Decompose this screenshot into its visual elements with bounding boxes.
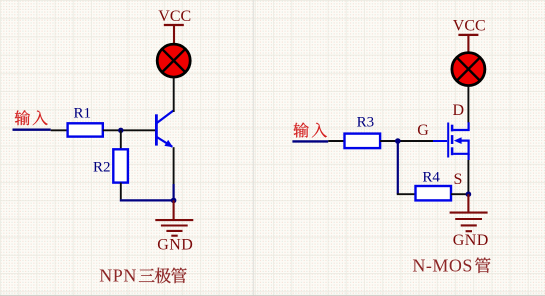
wire: emitter down bbox=[173, 147, 175, 200]
caption N-MOS管 bbox=[412, 255, 490, 275]
resistor R4 label bbox=[422, 170, 440, 186]
wire: lamp to collector bbox=[173, 78, 175, 111]
junction node (source/R4/ground) bbox=[466, 191, 472, 197]
svg-text:GND: GND bbox=[453, 232, 489, 249]
svg-text:R3: R3 bbox=[357, 115, 375, 131]
svg-text:VCC: VCC bbox=[453, 18, 486, 35]
wire: R3 to gate bbox=[380, 140, 447, 142]
wire: input to R1 bbox=[51, 129, 68, 131]
svg-text:NPN: NPN bbox=[99, 266, 137, 286]
resistor R4 bbox=[416, 186, 452, 200]
svg-text:R1: R1 bbox=[74, 106, 92, 122]
ground symbol (left) bbox=[155, 200, 193, 235]
transistor Q2 (N-MOSFET) bbox=[448, 122, 468, 160]
resistor R2 label bbox=[93, 159, 111, 175]
pin label G bbox=[417, 122, 429, 139]
junction node (emitter/ground) bbox=[171, 198, 177, 204]
wire: bottom rail to emitter node bbox=[120, 199, 174, 201]
lamp DS2 (right indicator) bbox=[452, 53, 485, 86]
svg-text:S: S bbox=[454, 171, 463, 188]
svg-text:R4: R4 bbox=[422, 170, 440, 186]
pin label S bbox=[454, 171, 463, 188]
wire: lamp to drain bbox=[467, 86, 469, 123]
junction node (gate/R4) bbox=[395, 138, 401, 144]
resistor R3 label bbox=[357, 115, 375, 131]
caption NPN三极管 bbox=[99, 266, 186, 286]
svg-text:VCC: VCC bbox=[158, 8, 191, 25]
wire: R1 to base bbox=[103, 129, 156, 131]
lamp DS1 (left indicator) bbox=[157, 44, 190, 77]
power port VCC (left) bbox=[158, 8, 191, 43]
wire: to R4 left bbox=[397, 193, 416, 195]
svg-text:R2: R2 bbox=[93, 159, 111, 175]
svg-text:D: D bbox=[453, 102, 465, 119]
bottom sheet edge bbox=[0, 294, 545, 296]
wire: R2 down bbox=[120, 183, 122, 200]
net label GND (left) bbox=[157, 236, 193, 253]
port underline (right input) bbox=[292, 140, 328, 142]
junction node (base/R2) bbox=[118, 128, 123, 133]
port underline (left input) bbox=[13, 129, 51, 131]
resistor R3 bbox=[345, 134, 381, 149]
resistor R1 label bbox=[74, 106, 92, 122]
pin label D bbox=[453, 102, 465, 119]
wire: source down bbox=[467, 160, 469, 194]
net label 输入 (left input) bbox=[15, 110, 48, 125]
svg-text:G: G bbox=[417, 122, 429, 139]
svg-text:N-MOS: N-MOS bbox=[412, 255, 473, 275]
resistor R1 bbox=[68, 123, 103, 136]
power port VCC (right) bbox=[453, 18, 486, 53]
net label GND (right) bbox=[453, 232, 489, 249]
wire: R4 to source node bbox=[451, 193, 466, 195]
transistor Q1 (NPN) bbox=[156, 111, 173, 148]
ground symbol (right) bbox=[450, 194, 488, 231]
resistor R2 bbox=[113, 149, 128, 182]
wire: input to R3 bbox=[328, 140, 344, 142]
wire: junction down to R2 bbox=[120, 130, 122, 149]
wire: collector up bbox=[173, 111, 175, 112]
net label 输入 (right input) bbox=[293, 123, 326, 138]
svg-text:GND: GND bbox=[157, 236, 193, 253]
wire: junction down to R4 row bbox=[397, 141, 399, 194]
sheet zone divider line bbox=[252, 0, 254, 296]
